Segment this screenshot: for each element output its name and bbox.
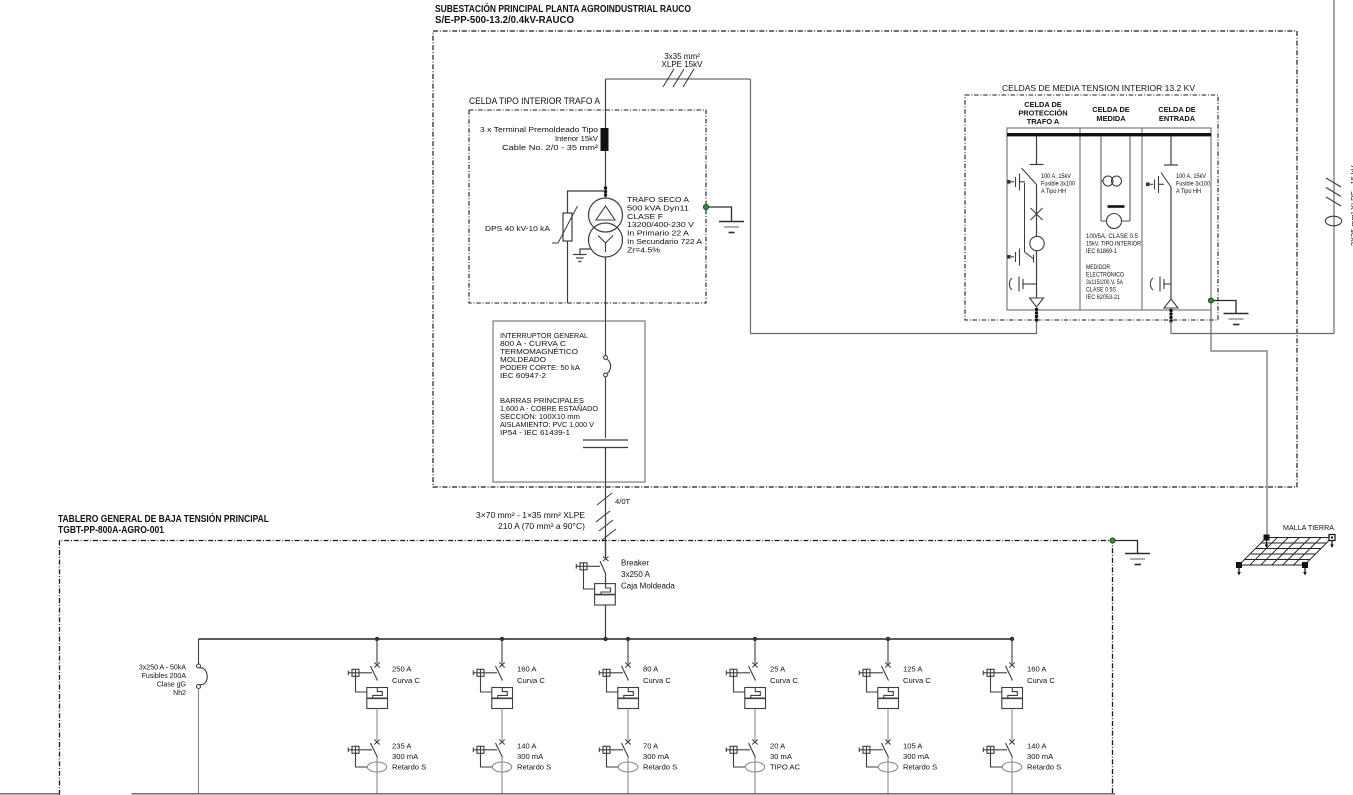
svg-text:SUBESTACIÓN PRINCIPAL PLANTA A: SUBESTACIÓN PRINCIPAL PLANTA AGROINDUSTR… [435, 2, 691, 15]
svg-text:80 A: 80 A [643, 665, 659, 674]
svg-text:3x250 A - 50kA: 3x250 A - 50kA [139, 665, 186, 672]
VT primary bar [1108, 205, 1125, 208]
wire: branch 5 interconnect [887, 709, 889, 741]
breaker: main 3x250 A caja moldeada [576, 557, 615, 606]
svg-text:300 mA: 300 mA [903, 752, 930, 761]
svg-text:300 mA: 300 mA [517, 752, 544, 761]
frame: bottom sheet edge left [0, 793, 60, 795]
DPS surge arrester 40kV-10kA [552, 191, 606, 303]
cable label 3x35mm2 XLPE 15kV [662, 52, 704, 69]
svg-text:125 A: 125 A [903, 665, 923, 674]
ground: MV cells frame earth [1214, 301, 1249, 325]
svg-text:4/0T: 4/0T [615, 497, 631, 506]
wire + HH fuse cell 1 [1036, 185, 1038, 237]
enclosure: celdas de media tension [965, 95, 1218, 320]
feeder cable loop mark [1325, 216, 1341, 226]
junction: branch 5 on bus [886, 637, 890, 641]
node: celda trafo earth tap (green) [703, 204, 708, 209]
svg-text:Curva C: Curva C [903, 676, 931, 685]
switchgear lineup box with three cells [1007, 128, 1211, 310]
capacitive voltage indicator cell 3 [1150, 277, 1171, 292]
metering VT loop [1101, 136, 1130, 221]
junction: branch 4 on bus [753, 637, 757, 641]
svg-text:3x250 A: 3x250 A [621, 570, 651, 579]
wire: MV riser above terminal [605, 79, 607, 128]
RCD: branch 6 140 A 300 mA [983, 740, 1014, 768]
svg-text:Zr=4.5%: Zr=4.5% [627, 245, 660, 254]
svg-text:CELDA DE: CELDA DE [1158, 105, 1196, 114]
svg-text:100/5A, CLASE 0.5: 100/5A, CLASE 0.5 [1086, 233, 1138, 240]
fuse label cell 3 [1176, 173, 1210, 195]
cell 1: protection feeder wire [1030, 136, 1044, 165]
LV main bus [199, 638, 1013, 640]
breaker: branch 2 160 A curva C [473, 639, 512, 709]
earthing branch line cell 1 [1024, 183, 1026, 252]
svg-text:Retardo S: Retardo S [392, 763, 426, 772]
junction: branch 1 on bus [375, 637, 379, 641]
svg-text:250 A: 250 A [392, 665, 412, 674]
breaker: branch 5 125 A curva C [859, 639, 898, 709]
svg-text:300 mA: 300 mA [643, 752, 670, 761]
earthing switch cell 1 (upper) [1008, 174, 1026, 191]
cell headers [1018, 100, 1195, 126]
svg-text:Curva C: Curva C [643, 676, 671, 685]
cable termination (up) cell 3 [1164, 299, 1178, 308]
sensing CT circle cell 1 [1030, 236, 1044, 250]
svg-text:25 A: 25 A [770, 665, 786, 674]
svg-text:Clase gG: Clase gG [157, 682, 186, 689]
svg-text:Curva C: Curva C [392, 676, 420, 685]
svg-text:Retardo S: Retardo S [643, 763, 677, 772]
enclosure: TGBT boundary [60, 541, 1113, 795]
svg-text:70 A: 70 A [643, 742, 659, 751]
svg-text:TGBT-PP-800A-AGRO-001: TGBT-PP-800A-AGRO-001 [58, 525, 164, 536]
svg-text:A Tipo HH: A Tipo HH [1041, 188, 1066, 195]
svg-text:3X35 mm² XLPE - 15 kV: 3X35 mm² XLPE - 15 kV [1349, 165, 1353, 246]
phase marks on LV feeder [596, 511, 616, 540]
wire: MV run y=333.5 to protection cell [751, 321, 1037, 334]
svg-text:Curva C: Curva C [770, 676, 798, 685]
capacitive voltage indicator cell 1 [1009, 277, 1036, 292]
phase marks incoming feeder [1326, 178, 1341, 206]
node: TGBT earth corner (green) [1110, 538, 1115, 543]
transformer nameplate labels [627, 195, 703, 254]
disconnector blade cell 3 [1161, 173, 1171, 188]
wire: TGBT incomer [605, 541, 607, 558]
svg-text:140 A: 140 A [517, 742, 537, 751]
breaker: branch 1 250 A curva C [348, 639, 387, 709]
svg-text:3×70 mm² - 1×35 mm² XLPE: 3×70 mm² - 1×35 mm² XLPE [476, 511, 585, 520]
breaker: interruptor general contacts [604, 321, 611, 438]
cable tap 4/0T mark [597, 493, 612, 505]
wire: earth conductor to malla tierra [1211, 303, 1267, 537]
MV busbar [1007, 133, 1211, 136]
junction: branch 2 on bus [500, 637, 504, 641]
svg-text:Caja Moldeada: Caja Moldeada [621, 582, 675, 591]
svg-text:3 x Terminal Premoldeado Tipo: 3 x Terminal Premoldeado Tipo [480, 125, 598, 134]
transformer neutral ground [573, 249, 591, 262]
breaker: branch 4 25 A curva C [726, 639, 765, 709]
svg-text:MEDIDA: MEDIDA [1096, 114, 1126, 123]
RCD: branch 2 140 A 300 mA [473, 740, 504, 768]
svg-text:TABLERO GENERAL DE BAJA TENSIÓ: TABLERO GENERAL DE BAJA TENSIÓN PRINCIPA… [58, 512, 269, 525]
disconnector blade cell 1 [1022, 168, 1037, 185]
svg-text:CLASE 0.5S: CLASE 0.5S [1086, 287, 1116, 294]
net label: TGBT title [58, 512, 269, 536]
earthing switch cell 3 [1147, 176, 1165, 193]
enclosure: interruptor general / barras [493, 321, 645, 482]
svg-text:IEC 62053-21: IEC 62053-21 [1086, 294, 1120, 301]
svg-text:300 mA: 300 mA [392, 752, 419, 761]
wire: LV main down from barras [605, 448, 607, 557]
metering labels [1086, 233, 1141, 301]
wire: transformer secondary down [605, 257, 607, 321]
svg-text:Nh2: Nh2 [173, 690, 186, 697]
transformer T1 TRAFO SECO A (two-winding) [589, 198, 623, 257]
phase marks on MV corridor [663, 69, 694, 87]
wire: MV horizontal corridor y=84 [606, 78, 751, 80]
fuse branch: 3x250A fusibles NH2 [197, 639, 208, 689]
wire: branch 1 interconnect [376, 709, 378, 741]
svg-text:Fusible 3x100: Fusible 3x100 [1176, 181, 1210, 188]
junction: branch 6 on bus [1010, 637, 1014, 641]
svg-text:CELDA DE: CELDA DE [1092, 105, 1130, 114]
svg-text:3x115/200 V, 5A: 3x115/200 V, 5A [1086, 279, 1123, 286]
svg-text:IP54 - IEC 61439-1: IP54 - IEC 61439-1 [500, 428, 570, 437]
svg-text:IEC 60947-2: IEC 60947-2 [500, 371, 546, 380]
svg-text:Curva C: Curva C [1027, 676, 1055, 685]
malla tierra (ground grid) [1239, 538, 1332, 566]
ground: TGBT frame earth [1115, 541, 1150, 565]
wire: terminal to transformer [605, 151, 607, 198]
wire: main breaker to bus [605, 575, 607, 584]
frame: bottom sheet edge [132, 793, 1116, 795]
svg-text:Retardo S: Retardo S [1027, 763, 1061, 772]
svg-text:ELECTRÓNICO: ELECTRÓNICO [1086, 270, 1124, 279]
svg-text:S/E-PP-500-13.2/0.4kV-RAUCO: S/E-PP-500-13.2/0.4kV-RAUCO [435, 15, 574, 26]
svg-text:Cable No. 2/0 - 35 mm²: Cable No. 2/0 - 35 mm² [502, 143, 599, 152]
svg-text:300 mA: 300 mA [1027, 752, 1054, 761]
wire: branch 4 interconnect [754, 709, 756, 741]
junction: incomer on bus [603, 637, 607, 641]
cable stress-cone dots above transformer [604, 186, 607, 196]
svg-text:160 A: 160 A [1027, 665, 1047, 674]
svg-text:MEDIDOR: MEDIDOR [1086, 264, 1110, 271]
svg-text:A Tipo HH: A Tipo HH [1176, 188, 1201, 195]
wire: MV drop x=751 [750, 79, 752, 334]
svg-text:210 A (70 mm² a 90°C): 210 A (70 mm² a 90°C) [498, 522, 585, 531]
svg-text:Curva C: Curva C [517, 676, 545, 685]
cable termination (down) cell 1 [1030, 298, 1044, 307]
earthing switch cell 1 (lower) [1008, 249, 1034, 266]
RCD: branch 5 105 A 300 mA [859, 740, 890, 768]
svg-text:Fusibles 200A: Fusibles 200A [142, 673, 187, 680]
svg-text:30 mA: 30 mA [770, 752, 793, 761]
svg-text:XLPE 15kV: XLPE 15kV [662, 60, 704, 69]
junction: branch 3 on bus [626, 637, 630, 641]
svg-text:105 A: 105 A [903, 742, 923, 751]
fuse label cell 1 [1041, 173, 1075, 195]
metering CT pair [1101, 176, 1122, 186]
enclosure: S/E-PP-500 substation boundary [433, 31, 1297, 487]
wire: cell 3 down to feeder run [1171, 0, 1334, 334]
busbar symbol (barras principales) [583, 440, 628, 448]
LV feeder cable label [476, 511, 585, 531]
terminal premoldeado (cable termination) [601, 128, 609, 151]
svg-text:CELDAS DE MEDIA TENSION INTERI: CELDAS DE MEDIA TENSION INTERIOR 13.2 KV [1002, 83, 1195, 93]
wire down cell 3 [1170, 187, 1172, 299]
breaker: branch 3 80 A curva C [599, 639, 638, 709]
svg-text:235 A: 235 A [392, 742, 412, 751]
svg-text:15kV, TIPO INTERIOR: 15kV, TIPO INTERIOR [1086, 241, 1141, 248]
svg-text:Fusible 3x100: Fusible 3x100 [1041, 181, 1075, 188]
svg-text:Retardo S: Retardo S [517, 763, 551, 772]
svg-text:Breaker: Breaker [621, 559, 649, 568]
svg-text:100 A, 15kV: 100 A, 15kV [1041, 173, 1072, 180]
RCD: branch 3 70 A 300 mA [599, 740, 630, 768]
svg-text:IEC 61869-1: IEC 61869-1 [1086, 248, 1117, 255]
wire: branch 2 interconnect [501, 709, 503, 741]
svg-text:100 A, 15kV: 100 A, 15kV [1176, 173, 1207, 180]
svg-text:MALLA TIERRA: MALLA TIERRA [1283, 523, 1334, 532]
svg-text:TRAFO A: TRAFO A [1027, 117, 1060, 126]
breaker: branch 6 160 A curva C [983, 639, 1022, 709]
wire: branch 3 interconnect [627, 709, 629, 741]
svg-text:TIPO AC: TIPO AC [770, 763, 800, 772]
svg-text:Interior 15kV: Interior 15kV [555, 134, 599, 143]
RCD: branch 1 235 A 300 mA [348, 740, 379, 768]
svg-text:160 A: 160 A [517, 665, 537, 674]
net label: substation title [435, 2, 691, 26]
malla tierra corner rods [1236, 535, 1335, 576]
cell 3: incoming wire [1164, 136, 1178, 165]
enclosure: celda tipo interior trafo A [469, 110, 706, 303]
ground: celda trafo A frame earth [709, 207, 745, 233]
svg-text:DPS 40 kV-10 kA: DPS 40 kV-10 kA [485, 224, 551, 233]
svg-text:20 A: 20 A [770, 742, 786, 751]
svg-text:ENTRADA: ENTRADA [1159, 114, 1196, 123]
svg-text:CELDA TIPO INTERIOR TRAFO A: CELDA TIPO INTERIOR TRAFO A [469, 96, 600, 106]
RCD: branch 4 20 A 30 mA [726, 740, 757, 768]
node: MV cells earth (green) [1208, 298, 1213, 303]
VT circle [1107, 214, 1122, 229]
svg-text:Retardo S: Retardo S [903, 763, 937, 772]
svg-text:140 A: 140 A [1027, 742, 1047, 751]
wire: branch 6 interconnect [1011, 709, 1013, 741]
